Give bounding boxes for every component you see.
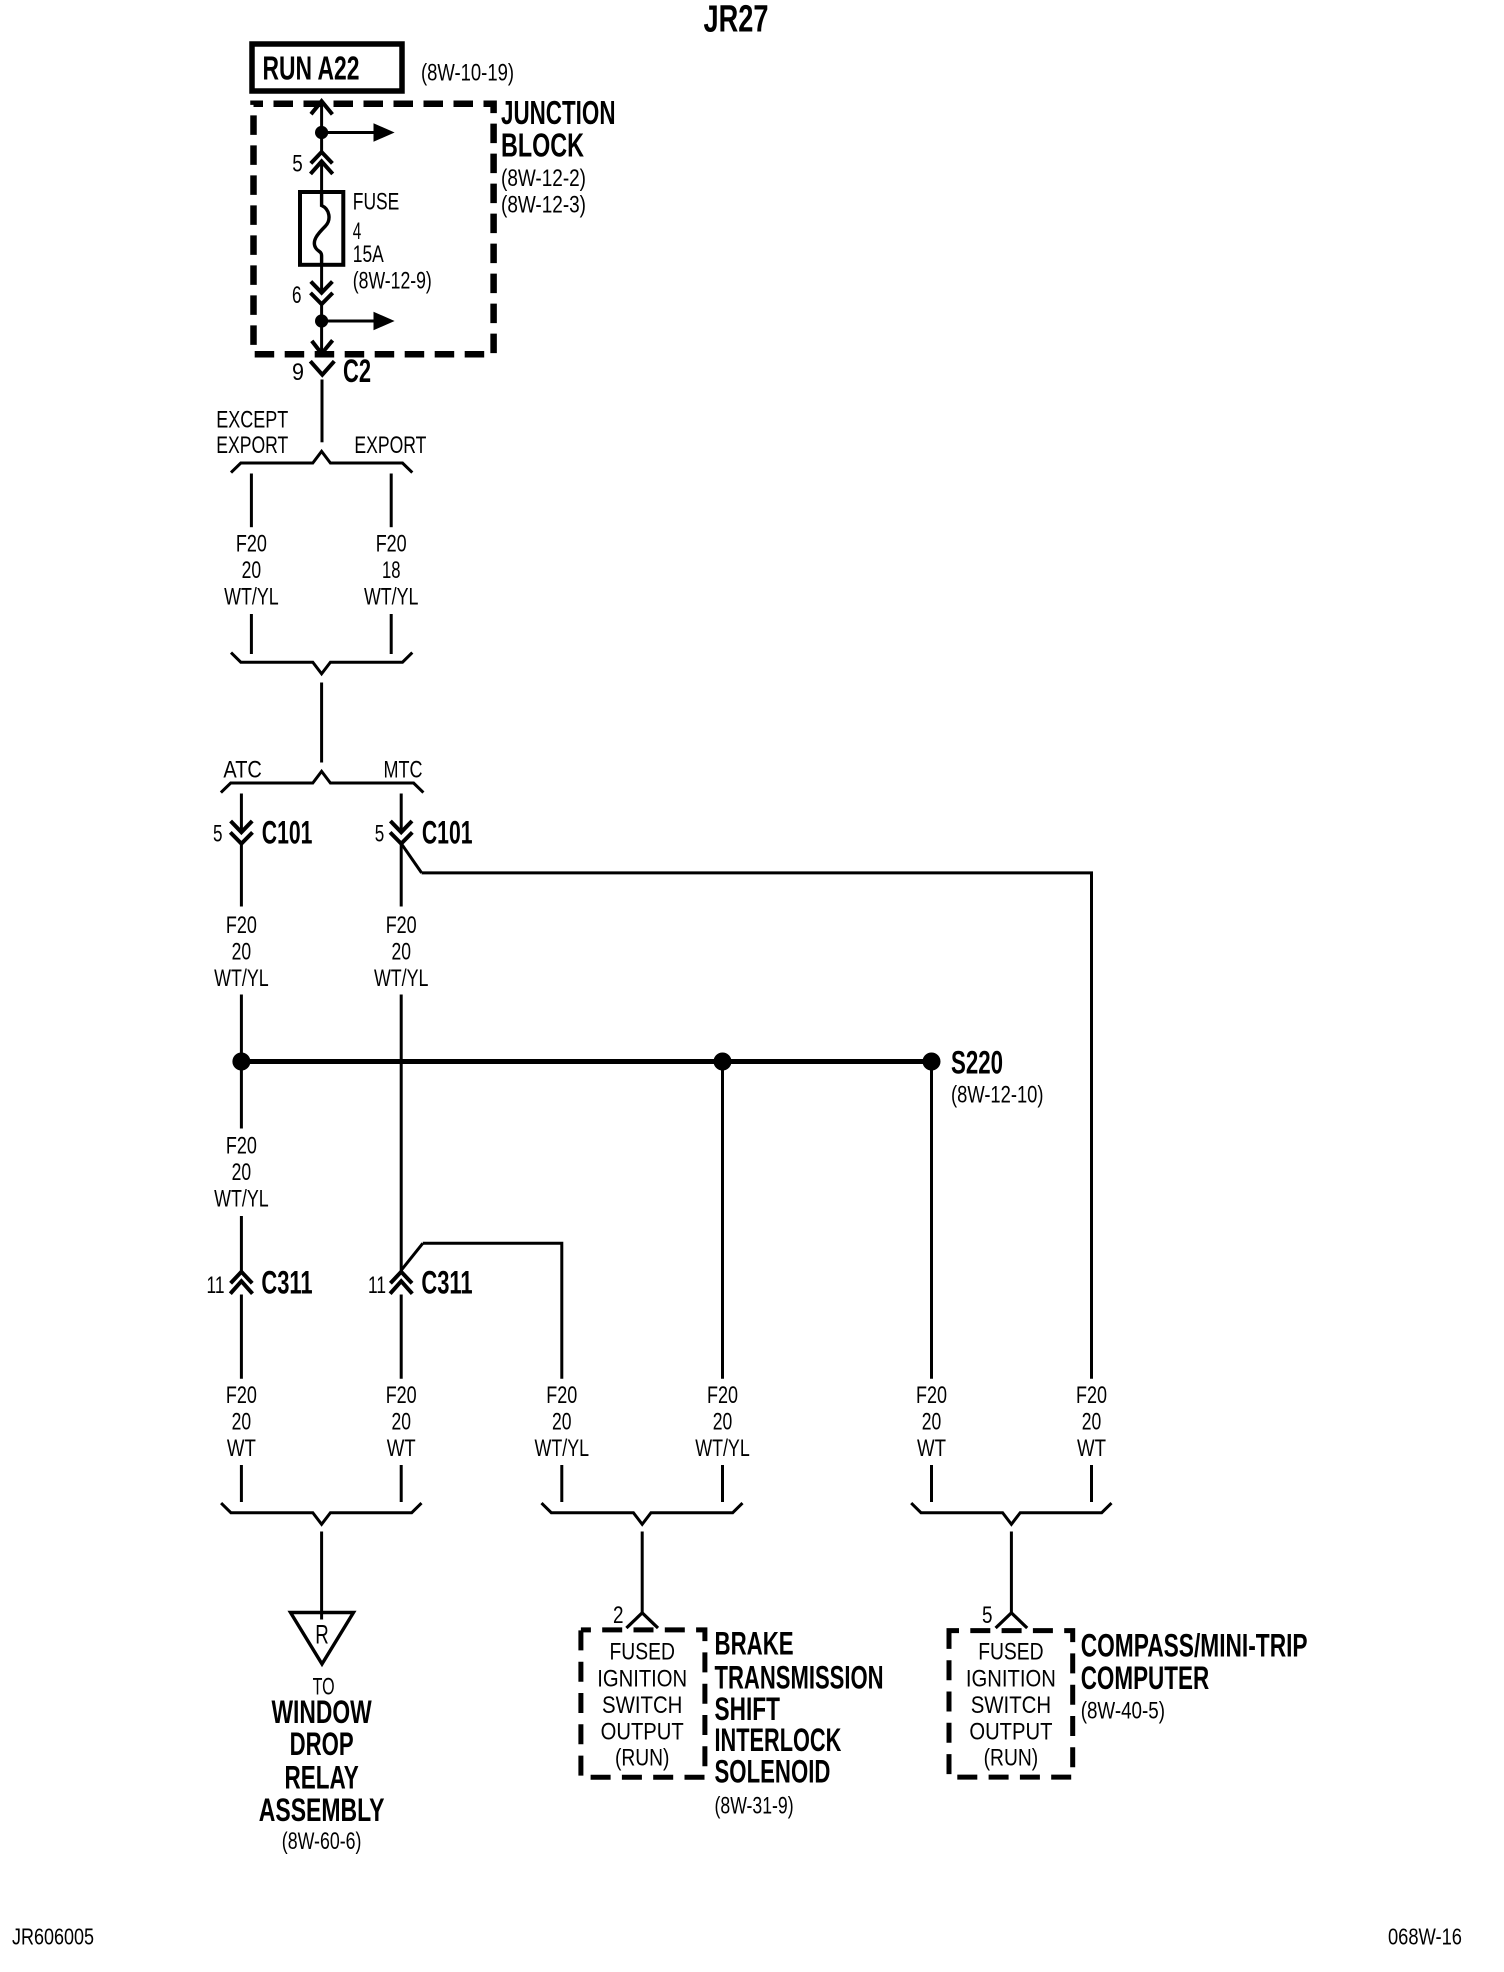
wire diagonal from C101 MTC: [401, 844, 421, 873]
wire bottom stub col5: [930, 1465, 933, 1502]
svg-text:WT: WT: [917, 1435, 946, 1462]
fuse F4 body: [300, 192, 343, 265]
svg-text:2: 2: [613, 1602, 624, 1629]
arrow right (bus continuation upper): [322, 131, 375, 134]
svg-text:C101: C101: [262, 815, 313, 851]
svg-text:11: 11: [368, 1272, 386, 1299]
svg-text:20: 20: [922, 1409, 942, 1436]
svg-text:F20: F20: [376, 531, 407, 558]
svg-text:F20: F20: [546, 1382, 577, 1409]
svg-text:SWITCH: SWITCH: [971, 1692, 1051, 1719]
wire bottom stub col2: [400, 1465, 403, 1502]
wire C101 ATC down: [240, 844, 243, 907]
svg-text:S220: S220: [951, 1045, 1003, 1081]
wire S220 down: [930, 1062, 933, 1379]
svg-text:F20: F20: [236, 531, 267, 558]
branch-in chevron (interlock pin 2): [626, 1613, 658, 1628]
svg-text:JR606005: JR606005: [12, 1924, 94, 1950]
svg-text:OUTPUT: OUTPUT: [601, 1719, 684, 1746]
svg-text:FUSE: FUSE: [353, 189, 400, 216]
svg-text:(8W-40-5): (8W-40-5): [1081, 1698, 1165, 1725]
svg-text:20: 20: [552, 1409, 572, 1436]
svg-text:RUN A22: RUN A22: [263, 51, 360, 88]
svg-text:FUSED: FUSED: [610, 1639, 675, 1666]
splice bus S220: [241, 1059, 931, 1064]
connector C101 chevrons (MTC): [390, 821, 412, 832]
wire node to pin 5: [320, 133, 323, 153]
svg-text:20: 20: [242, 557, 262, 584]
fused ignition switch output box (interlock): [581, 1630, 705, 1777]
svg-text:OUTPUT: OUTPUT: [969, 1719, 1052, 1746]
variant merge brace: [231, 653, 412, 674]
wire horizontal to compass feed: [422, 873, 1092, 1379]
svg-text:JUNCTION: JUNCTION: [501, 95, 616, 132]
svg-text:20: 20: [232, 939, 252, 966]
svg-text:IGNITION: IGNITION: [966, 1666, 1056, 1693]
svg-text:20: 20: [232, 1409, 252, 1436]
junction block dashed outline: [254, 104, 494, 355]
wire col1 to C311: [240, 1216, 243, 1272]
branch-in chevron (compass pin 5): [996, 1613, 1028, 1628]
svg-text:F20: F20: [226, 912, 257, 939]
variant split brace (EXCEPT EXPORT / EXPORT): [231, 451, 412, 472]
connector C311 chevrons (left): [231, 1272, 253, 1283]
svg-text:WT: WT: [1077, 1435, 1106, 1462]
svg-text:SOLENOID: SOLENOID: [715, 1754, 831, 1790]
wire bottom stub col3: [560, 1465, 563, 1502]
svg-text:WT/YL: WT/YL: [214, 965, 269, 992]
arrow right (bus continuation lower): [322, 320, 375, 323]
svg-text:F20: F20: [226, 1382, 257, 1409]
wire export branch upper: [390, 474, 393, 528]
svg-text:20: 20: [713, 1409, 733, 1436]
wire except-export branch lower: [250, 614, 253, 654]
wire C311 left down: [240, 1295, 243, 1379]
wire splice mid down: [721, 1062, 724, 1379]
wire brace to relay triangle: [320, 1532, 323, 1620]
svg-text:15A: 15A: [353, 241, 384, 268]
svg-text:(8W-12-9): (8W-12-9): [353, 268, 432, 295]
svg-text:C311: C311: [421, 1265, 472, 1301]
svg-text:F20: F20: [916, 1382, 947, 1409]
wire except-export branch upper: [250, 474, 253, 528]
wire C311 right down: [400, 1295, 403, 1379]
svg-text:5: 5: [213, 820, 223, 847]
svg-text:(8W-10-19): (8W-10-19): [421, 60, 514, 87]
svg-text:WT: WT: [387, 1435, 416, 1462]
svg-text:(RUN): (RUN): [984, 1745, 1039, 1772]
svg-text:COMPASS/MINI-TRIP: COMPASS/MINI-TRIP: [1081, 1628, 1308, 1664]
svg-text:068W-16: 068W-16: [1388, 1924, 1462, 1950]
svg-text:F20: F20: [707, 1382, 738, 1409]
svg-text:(RUN): (RUN): [615, 1745, 670, 1772]
svg-text:WT: WT: [227, 1435, 256, 1462]
svg-text:WT/YL: WT/YL: [374, 965, 429, 992]
node junction dot upper: [315, 126, 328, 139]
wire bottom stub col6: [1090, 1465, 1093, 1502]
svg-text:BRAKE: BRAKE: [715, 1626, 794, 1662]
wire ATC branch: [240, 794, 243, 833]
connector chevrons pin 5: [311, 152, 333, 163]
splice dot middle: [714, 1053, 732, 1071]
wire C2 to variant split: [321, 380, 324, 443]
svg-text:SWITCH: SWITCH: [602, 1692, 682, 1719]
svg-text:20: 20: [391, 939, 411, 966]
svg-text:(8W-12-10): (8W-12-10): [951, 1082, 1044, 1109]
wire MTC branch: [400, 794, 403, 833]
svg-text:F20: F20: [386, 1382, 417, 1409]
svg-text:C311: C311: [261, 1265, 312, 1301]
svg-text:BLOCK: BLOCK: [501, 128, 584, 165]
merge brace to relay: [221, 1503, 421, 1524]
svg-text:20: 20: [391, 1409, 411, 1436]
connector C101 chevrons (ATC): [231, 821, 253, 832]
variant split brace (ATC / MTC): [221, 771, 424, 792]
svg-text:MTC: MTC: [384, 756, 423, 783]
svg-text:20: 20: [1082, 1409, 1102, 1436]
svg-text:EXPORT: EXPORT: [216, 432, 288, 459]
svg-text:WT/YL: WT/YL: [695, 1435, 750, 1462]
wire bottom stub col1: [240, 1465, 243, 1502]
wire export branch lower: [390, 614, 393, 654]
svg-text:RELAY: RELAY: [285, 1760, 359, 1796]
fused ignition switch output box (compass): [949, 1631, 1073, 1778]
arrow up into RUN A22: [311, 101, 332, 114]
svg-text:EXCEPT: EXCEPT: [216, 407, 288, 434]
svg-text:(8W-31-9): (8W-31-9): [715, 1793, 794, 1820]
svg-text:11: 11: [207, 1272, 225, 1299]
wire horizontal to interlock feed: [423, 1243, 562, 1379]
merge brace to interlock: [542, 1503, 743, 1524]
svg-text:ASSEMBLY: ASSEMBLY: [259, 1792, 385, 1828]
connector C311 chevrons (right): [390, 1272, 412, 1283]
svg-text:5: 5: [292, 151, 303, 178]
wire col1 to splice: [240, 995, 243, 1062]
svg-text:R: R: [315, 1620, 329, 1650]
svg-text:WT/YL: WT/YL: [364, 584, 419, 611]
wire pin 5 to fuse: [320, 164, 323, 193]
svg-text:DROP: DROP: [290, 1726, 354, 1762]
wire brace to compass pin: [1010, 1532, 1013, 1613]
svg-text:F20: F20: [386, 912, 417, 939]
connector C2 cavity chevron: [310, 361, 334, 375]
svg-text:JR27: JR27: [704, 0, 769, 41]
svg-text:WT/YL: WT/YL: [214, 1186, 269, 1213]
svg-text:5: 5: [982, 1602, 993, 1629]
power feed box RUN A22: [252, 44, 402, 91]
wire pin 6 to node: [320, 304, 323, 321]
svg-text:WT/YL: WT/YL: [535, 1435, 590, 1462]
svg-text:F20: F20: [226, 1133, 257, 1160]
wire brace to interlock pin: [641, 1532, 644, 1613]
svg-text:F20: F20: [1076, 1382, 1107, 1409]
fuse F4 element: [314, 192, 329, 265]
svg-text:COMPUTER: COMPUTER: [1081, 1660, 1210, 1696]
wire arrow to node: [320, 102, 323, 134]
wire col2 through splice level: [400, 995, 403, 1272]
svg-text:C2: C2: [343, 353, 371, 389]
connector chevrons pin 6: [311, 282, 333, 293]
wire merge to ATC/MTC split: [320, 683, 323, 763]
svg-text:20: 20: [232, 1159, 252, 1186]
wire diagonal from C311 right: [401, 1243, 423, 1270]
merge brace to compass: [911, 1503, 1111, 1524]
svg-text:ATC: ATC: [223, 756, 262, 783]
svg-text:FUSED: FUSED: [978, 1639, 1043, 1666]
svg-text:(8W-12-2): (8W-12-2): [501, 165, 586, 192]
svg-text:6: 6: [292, 282, 302, 309]
relay symbol R (window drop relay): [291, 1613, 354, 1665]
svg-text:EXPORT: EXPORT: [354, 432, 426, 459]
wire col1 below splice: [240, 1062, 243, 1129]
node junction dot lower: [315, 314, 328, 327]
exit chevron at junction block border: [312, 340, 333, 353]
svg-text:WINDOW: WINDOW: [272, 1694, 373, 1730]
wire fuse to pin 6: [320, 265, 323, 293]
svg-text:18: 18: [382, 557, 401, 584]
svg-text:5: 5: [375, 820, 385, 847]
splice dot left: [232, 1053, 250, 1071]
wire node to block exit: [320, 321, 323, 352]
svg-text:C101: C101: [422, 815, 473, 851]
svg-text:9: 9: [292, 359, 304, 386]
splice dot S220: [923, 1053, 941, 1071]
wire C101 MTC down: [400, 844, 403, 907]
svg-text:IGNITION: IGNITION: [597, 1666, 687, 1693]
svg-text:(8W-12-3): (8W-12-3): [501, 192, 586, 219]
svg-text:(8W-60-6): (8W-60-6): [282, 1828, 362, 1855]
svg-text:WT/YL: WT/YL: [224, 584, 279, 611]
wire bottom stub col4: [721, 1465, 724, 1502]
